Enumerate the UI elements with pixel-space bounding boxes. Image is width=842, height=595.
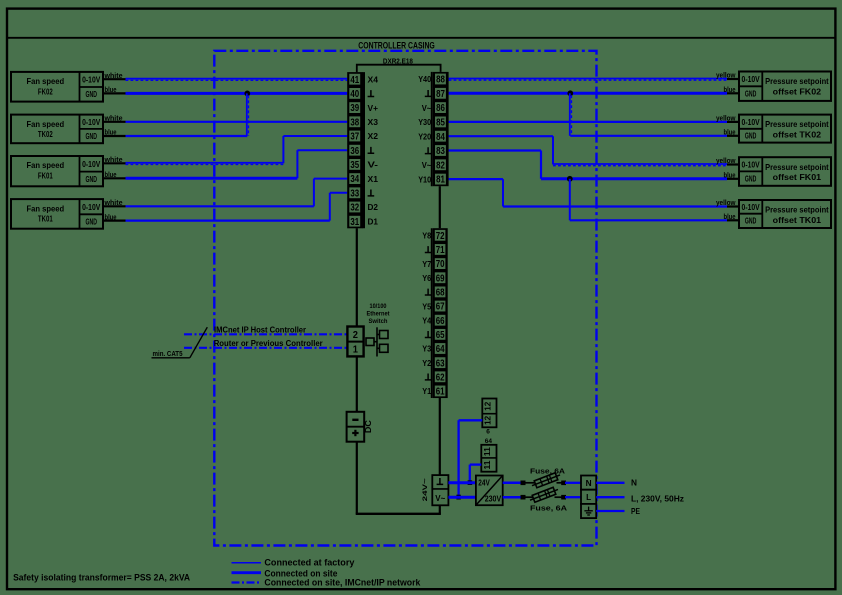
terminal 68: [435, 287, 446, 298]
svg-text:N: N: [631, 477, 637, 487]
junction node GND FK02/TK02: [244, 91, 250, 97]
svg-text:X1: X1: [368, 174, 379, 184]
wire from terminal 81 stepping down: [449, 178, 503, 180]
svg-text:GND: GND: [86, 90, 98, 99]
svg-text:0-10V: 0-10V: [82, 76, 101, 85]
svg-text:70: 70: [436, 259, 445, 270]
svg-text:Fuse, 6A: Fuse, 6A: [530, 504, 568, 513]
svg-text:Pressure setpoint: Pressure setpoint: [765, 162, 829, 172]
svg-text:DXR2.E18: DXR2.E18: [383, 58, 413, 65]
svg-text:230V: 230V: [485, 494, 502, 503]
fuse F1 6A (upper): [526, 482, 536, 484]
svg-text:L, 230V, 50Hz: L, 230V, 50Hz: [631, 494, 684, 504]
svg-text:offset TK02: offset TK02: [773, 129, 822, 139]
right terminal strip (upper): [433, 72, 449, 186]
svg-text:Connected on site, IMCnet/IP n: Connected on site, IMCnet/IP network: [264, 577, 421, 588]
svg-text:offset FK02: offset FK02: [773, 86, 822, 96]
fuse F2 6A (lower): [526, 496, 534, 498]
svg-text:offset FK01: offset FK01: [773, 172, 822, 182]
junction before L terminal: [561, 495, 566, 500]
svg-text:D2: D2: [368, 202, 379, 212]
svg-text:GND: GND: [745, 217, 757, 226]
svg-text:64: 64: [436, 344, 445, 355]
svg-text:6: 6: [486, 429, 490, 436]
svg-text:Connected at factory: Connected at factory: [264, 557, 355, 568]
svg-text:X2: X2: [368, 131, 379, 141]
svg-text:DC: DC: [364, 420, 373, 433]
right terminal strip rail (upper): [431, 72, 433, 186]
svg-text:36: 36: [350, 146, 359, 157]
svg-text:yellow: yellow: [716, 114, 736, 123]
junction before N terminal: [561, 481, 566, 486]
wire white TK02 to terminal 38: [103, 121, 126, 123]
wire PE mains: [596, 510, 624, 512]
wire yellow to pressure setpoint TK01: [503, 205, 727, 207]
terminal 81: [435, 174, 446, 185]
fan speed source FK01: [11, 156, 103, 186]
pin label perp: [425, 147, 432, 153]
svg-text:31: 31: [350, 217, 359, 228]
svg-text:GND: GND: [86, 175, 98, 184]
svg-text:84: 84: [436, 132, 445, 143]
svg-text:GND: GND: [745, 174, 757, 183]
svg-text:yellow: yellow: [716, 156, 736, 165]
wire white FK02 to terminal 41: [103, 78, 126, 80]
svg-text:64: 64: [485, 438, 493, 445]
terminal 65: [435, 329, 446, 340]
wire controller body bottom: [356, 513, 441, 515]
wire controller body left vertical (below strip A): [356, 228, 358, 326]
wire controller body right vertical (strip B to strip C): [439, 186, 441, 228]
terminal 41: [349, 74, 360, 85]
left terminal strip: [347, 72, 363, 228]
svg-text:Pressure setpoint: Pressure setpoint: [765, 119, 829, 129]
pressure setpoint offset TK02: [739, 115, 831, 143]
svg-text:0-10V: 0-10V: [82, 160, 101, 169]
svg-text:D1: D1: [368, 216, 379, 226]
terminal 62: [435, 371, 446, 382]
terminal 36: [349, 145, 360, 156]
terminal 61: [435, 386, 446, 397]
wire N mains: [596, 482, 624, 484]
pin label perp: [425, 289, 432, 295]
svg-text:Y8: Y8: [422, 231, 431, 241]
svg-text:2: 2: [353, 330, 359, 341]
relay terminal block 11/11: [481, 445, 496, 472]
terminal 83: [435, 145, 446, 156]
wire blue TK01 to terminal 33: [103, 220, 126, 222]
svg-text:Ethernet: Ethernet: [367, 310, 391, 317]
svg-text:Y40: Y40: [418, 74, 431, 84]
svg-text:Y6: Y6: [422, 273, 431, 283]
svg-text:white: white: [104, 155, 123, 164]
wire 24V block to bottom: [439, 505, 441, 514]
svg-text:white: white: [104, 114, 123, 123]
svg-text:85: 85: [436, 118, 445, 129]
wire blue to pressure setpoint FK01: [541, 177, 727, 180]
svg-text:67: 67: [436, 302, 445, 313]
legend connected at factory: [232, 562, 262, 564]
wire IMCnet IP host controller network: [184, 333, 347, 335]
terminal 67: [435, 301, 446, 312]
svg-text:Fan speed: Fan speed: [27, 203, 65, 213]
terminal 35: [349, 159, 360, 170]
svg-text:63: 63: [436, 358, 445, 369]
terminal 69: [435, 272, 446, 283]
terminal PE with earth symbol: [581, 504, 596, 518]
svg-text:11: 11: [483, 447, 492, 457]
junction square on ground wire: [468, 480, 473, 485]
wire yellow to pressure setpoint FK02 from terminal 88: [449, 78, 727, 80]
title strip divider: [7, 37, 835, 39]
terminal 31: [349, 216, 360, 227]
svg-text:1: 1: [353, 344, 359, 355]
wire to N terminal: [565, 482, 581, 484]
svg-text:blue: blue: [105, 170, 117, 179]
svg-text:Y30: Y30: [418, 117, 431, 127]
svg-text:Y5: Y5: [422, 301, 431, 311]
svg-text:40: 40: [350, 89, 359, 100]
24V supply terminal block: [432, 475, 448, 505]
svg-text:0-10V: 0-10V: [742, 203, 761, 212]
svg-text:72: 72: [436, 231, 445, 242]
pin label perp: [425, 90, 432, 96]
terminal 84: [435, 131, 446, 142]
terminal 88: [435, 74, 446, 85]
legend connected on site, IMCnet/IP network: [232, 581, 262, 583]
junction square on V~ wire: [456, 495, 460, 500]
svg-text:33: 33: [350, 188, 359, 199]
svg-text:10/100: 10/100: [370, 303, 387, 310]
svg-text:41: 41: [350, 75, 359, 86]
pin label perp: [425, 331, 432, 337]
svg-text:Fuse, 6A: Fuse, 6A: [530, 467, 566, 476]
svg-text:TK01: TK01: [38, 214, 53, 224]
svg-text:61: 61: [436, 387, 445, 398]
terminal 87: [435, 88, 446, 99]
fan speed source FK02: [11, 72, 103, 102]
svg-text:blue: blue: [724, 128, 736, 137]
wire riser to offset TK02 GND: [569, 93, 571, 136]
transformer T1 24V/230V: [476, 476, 503, 506]
terminal 72: [435, 230, 446, 241]
svg-text:0-10V: 0-10V: [742, 118, 761, 127]
svg-text:blue: blue: [724, 212, 736, 221]
svg-text:0-10V: 0-10V: [82, 118, 101, 127]
svg-text:X3: X3: [368, 117, 379, 127]
svg-text:yellow: yellow: [716, 198, 736, 207]
svg-text:TK02: TK02: [38, 129, 53, 139]
svg-text:blue: blue: [724, 171, 736, 180]
svg-text:34: 34: [350, 174, 359, 185]
terminal 86: [435, 102, 446, 113]
wire riser TK02 GND to junction: [246, 93, 248, 136]
svg-text:Fan speed: Fan speed: [27, 76, 65, 86]
svg-text:N: N: [586, 478, 592, 488]
ethernet ports box: [347, 327, 363, 357]
right terminal strip (lower): [433, 228, 448, 398]
pressure setpoint offset FK02: [739, 72, 831, 101]
svg-text:35: 35: [350, 160, 359, 171]
wire blue FK01 to terminal 36: [103, 177, 126, 179]
svg-text:blue: blue: [105, 85, 117, 94]
fan speed source TK01: [11, 199, 103, 229]
wire transformer primary L: [503, 482, 521, 485]
svg-text:37: 37: [350, 132, 359, 143]
svg-text:Y2: Y2: [422, 358, 431, 368]
ethernet switch icon: [366, 327, 388, 356]
pin ground (24V block): [437, 478, 444, 484]
controller casing boundary: [214, 51, 596, 546]
svg-text:Fan speed: Fan speed: [27, 160, 65, 170]
terminal 64: [435, 343, 446, 354]
svg-text:V~: V~: [422, 160, 432, 170]
svg-text:12: 12: [484, 415, 493, 425]
svg-text:Y4: Y4: [422, 315, 431, 325]
pin plus: [352, 432, 358, 434]
terminal 37: [349, 131, 360, 142]
svg-text:Pressure setpoint: Pressure setpoint: [765, 205, 829, 215]
svg-text:V~: V~: [435, 494, 445, 503]
svg-text:offset TK01: offset TK01: [773, 215, 822, 225]
wire controller body right vertical (strip C to 24V block): [439, 398, 441, 475]
svg-text:81: 81: [436, 175, 445, 186]
svg-text:GND: GND: [86, 217, 98, 226]
wire from terminal 83 stepping down: [449, 149, 541, 151]
legend connected on site: [232, 571, 262, 574]
svg-text:86: 86: [436, 103, 445, 114]
svg-text:V+: V+: [368, 103, 379, 113]
svg-text:white: white: [104, 71, 123, 80]
svg-text:blue: blue: [724, 85, 736, 94]
terminal 39: [349, 102, 360, 113]
svg-text:blue: blue: [105, 212, 117, 221]
svg-text:Y3: Y3: [422, 344, 431, 354]
wire yellow to pressure setpoint TK02 from terminal 85: [449, 121, 727, 123]
svg-text:blue: blue: [105, 128, 117, 137]
svg-text:62: 62: [436, 372, 445, 383]
svg-text:FK01: FK01: [38, 170, 53, 180]
relay terminal block 12/12: [482, 399, 496, 428]
wire blue to pressure setpoint TK02: [570, 135, 727, 137]
terminal N: [581, 476, 596, 490]
svg-text:GND: GND: [86, 132, 98, 141]
pressure setpoint offset FK01: [739, 157, 831, 186]
svg-text:GND: GND: [745, 89, 757, 98]
svg-text:IMCnet IP Host Controller: IMCnet IP Host Controller: [214, 325, 306, 334]
svg-text:Router or Previous Controller: Router or Previous Controller: [214, 339, 323, 348]
wire yellow to pressure setpoint FK01: [553, 163, 727, 165]
terminal 38: [349, 116, 360, 127]
wire blue to pressure setpoint FK02 from terminal 87: [449, 92, 727, 95]
wire to L terminal: [565, 496, 581, 498]
terminal 70: [435, 258, 446, 269]
terminal L: [581, 490, 596, 504]
wire blue FK02 to terminal 40: [103, 92, 126, 94]
terminal 66: [435, 315, 446, 326]
wire ground to transformer: [448, 481, 476, 484]
DC supply terminal box: [347, 412, 365, 442]
svg-text:GND: GND: [745, 132, 757, 141]
svg-text:CONTROLLER CASING: CONTROLLER CASING: [358, 40, 435, 50]
fan speed source TK02: [11, 115, 103, 144]
svg-text:66: 66: [436, 316, 445, 327]
svg-text:24V: 24V: [478, 479, 490, 488]
pin minus: [352, 419, 358, 421]
svg-text:Fan speed: Fan speed: [27, 119, 65, 129]
terminal 71: [435, 244, 446, 255]
svg-text:Y10: Y10: [418, 174, 431, 184]
wire stub into terminal 37: [283, 135, 347, 137]
pressure setpoint offset TK01: [739, 200, 831, 228]
wire relay 12 to transformer secondary: [459, 419, 483, 421]
svg-text:83: 83: [436, 146, 445, 157]
svg-text:X4: X4: [368, 74, 379, 84]
svg-text:0-10V: 0-10V: [742, 75, 761, 84]
terminal 32: [349, 202, 360, 213]
svg-text:24V~: 24V~: [422, 478, 429, 501]
svg-text:L: L: [586, 492, 591, 502]
svg-text:39: 39: [350, 103, 359, 114]
svg-text:65: 65: [436, 330, 445, 341]
wire blue TK02: [103, 135, 126, 137]
pin label perp: [425, 246, 432, 252]
wire from terminal 84 stepping down: [449, 135, 553, 137]
svg-text:12: 12: [484, 401, 493, 411]
svg-text:white: white: [104, 198, 123, 207]
svg-text:min. CAT5: min. CAT5: [153, 349, 183, 358]
svg-text:FK02: FK02: [38, 86, 53, 96]
pin label perp: [368, 90, 375, 96]
svg-text:Pressure setpoint: Pressure setpoint: [765, 76, 829, 86]
svg-text:PE: PE: [631, 506, 640, 516]
svg-text:0-10V: 0-10V: [82, 203, 101, 212]
svg-text:68: 68: [436, 288, 445, 299]
terminal 82: [435, 159, 446, 170]
wire relay 11 to transformer secondary: [470, 463, 482, 465]
pin label perp: [368, 147, 375, 153]
wire L mains: [596, 496, 624, 498]
wire V~ to transformer: [448, 496, 476, 499]
svg-text:yellow: yellow: [716, 71, 736, 80]
pin label perp: [425, 374, 432, 380]
junction node GND offset FK02/TK02: [567, 90, 573, 96]
svg-text:38: 38: [350, 117, 359, 128]
svg-text:87: 87: [436, 89, 445, 100]
svg-text:69: 69: [436, 273, 445, 284]
wire transformer primary N: [503, 496, 521, 499]
terminal 63: [435, 357, 446, 368]
svg-text:11: 11: [483, 460, 492, 470]
wire controller body left vertical (ports to DC box): [356, 356, 358, 412]
right terminal strip rail (lower): [431, 228, 433, 398]
terminal 33: [349, 187, 360, 198]
svg-text:Y1: Y1: [422, 386, 431, 396]
svg-text:88: 88: [436, 75, 445, 86]
wire white TK01 to terminal 34: [103, 205, 126, 207]
svg-text:32: 32: [350, 203, 359, 214]
wire blue to pressure setpoint TK01: [570, 219, 727, 221]
svg-text:Safety isolating transformer=: Safety isolating transformer= PSS 2A, 2k…: [13, 572, 190, 583]
svg-text:Switch: Switch: [369, 318, 388, 325]
wire controller body left vertical (DC box to bottom): [356, 442, 358, 514]
wire riser to offset TK01 GND: [569, 179, 571, 221]
svg-text:Y7: Y7: [422, 259, 431, 269]
wire router/previous controller network: [184, 347, 347, 349]
terminal 40: [349, 88, 360, 99]
left terminal strip rail: [363, 72, 365, 228]
svg-text:V~: V~: [422, 103, 432, 113]
svg-text:Y20: Y20: [418, 131, 431, 141]
terminal 85: [435, 117, 446, 128]
svg-text:71: 71: [436, 245, 445, 256]
pin label perp: [368, 190, 375, 196]
op controller DXR2.E18 top bracket: [357, 65, 441, 73]
wire white FK01 to terminal 37: [103, 162, 126, 164]
terminal 34: [349, 173, 360, 184]
junction node GND offset FK01/TK01: [567, 176, 573, 182]
svg-text:82: 82: [436, 160, 445, 171]
svg-text:V-: V-: [368, 160, 379, 170]
svg-text:0-10V: 0-10V: [742, 161, 761, 170]
